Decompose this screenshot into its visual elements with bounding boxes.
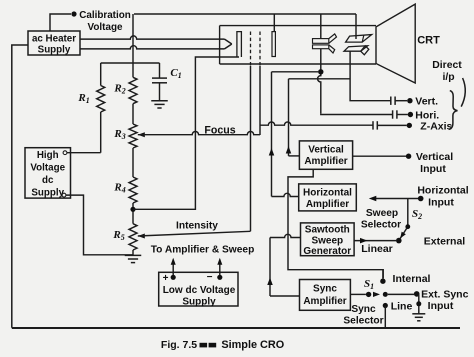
svg-text:R2: R2	[113, 83, 125, 96]
svg-text:Supply: Supply	[182, 297, 216, 308]
svg-text:Selector: Selector	[361, 220, 401, 231]
svg-text:CRT: CRT	[417, 35, 440, 47]
svg-text:Horizontal: Horizontal	[417, 185, 468, 197]
svg-text:External: External	[424, 236, 466, 248]
svg-text:Selector: Selector	[343, 316, 383, 327]
svg-text:Ext. Sync: Ext. Sync	[421, 289, 468, 301]
svg-text:Low dc Voltage: Low dc Voltage	[163, 285, 236, 296]
svg-text:Sawtooth: Sawtooth	[305, 225, 350, 236]
svg-text:Voltage: Voltage	[88, 22, 123, 33]
svg-text:Z-Axis: Z-Axis	[420, 121, 452, 133]
svg-text:Supply: Supply	[38, 45, 71, 56]
svg-text:R5: R5	[112, 229, 124, 242]
svg-text:Hori.: Hori.	[415, 109, 439, 121]
svg-text:Fig. 7.5: Fig. 7.5	[161, 339, 197, 351]
svg-text:Calibration: Calibration	[79, 10, 131, 21]
svg-text:i/p: i/p	[442, 72, 454, 83]
svg-text:Direct: Direct	[432, 60, 462, 71]
svg-text:High: High	[37, 150, 59, 161]
svg-text:Input: Input	[428, 300, 454, 312]
svg-text:Vertical: Vertical	[416, 151, 453, 163]
svg-text:R3: R3	[113, 128, 125, 141]
svg-text:C1: C1	[170, 67, 181, 80]
svg-text:+: +	[163, 273, 169, 284]
svg-text:Sync: Sync	[313, 284, 337, 295]
svg-text:Internal: Internal	[393, 273, 431, 285]
svg-text:Vertical: Vertical	[308, 145, 344, 156]
svg-text:Amplifier: Amplifier	[306, 199, 349, 210]
svg-text:Horizontal: Horizontal	[303, 188, 352, 199]
svg-text:Input: Input	[420, 163, 446, 175]
svg-text:dc: dc	[42, 175, 54, 186]
svg-text:Sweep: Sweep	[311, 236, 343, 247]
svg-text:Supply: Supply	[31, 188, 64, 199]
svg-text:Voltage: Voltage	[30, 163, 65, 174]
svg-text:S1: S1	[364, 278, 374, 291]
svg-text:Line: Line	[391, 300, 413, 312]
svg-text:Generator: Generator	[303, 246, 351, 257]
svg-text:R4: R4	[113, 182, 125, 195]
svg-text:Amplifier: Amplifier	[303, 296, 346, 307]
svg-text:Focus: Focus	[204, 125, 235, 137]
svg-text:Amplifier: Amplifier	[304, 156, 347, 167]
svg-text:S2: S2	[412, 208, 422, 221]
svg-text:To Amplifier & Sweep: To Amplifier & Sweep	[151, 245, 255, 256]
svg-text:Simple CRO: Simple CRO	[221, 339, 284, 351]
svg-text:Sync: Sync	[351, 304, 376, 315]
svg-text:R1: R1	[77, 92, 89, 105]
svg-text:Linear: Linear	[361, 243, 393, 255]
svg-text:ac Heater: ac Heater	[32, 34, 76, 45]
svg-text:Vert.: Vert.	[415, 96, 438, 108]
svg-text:−: −	[207, 272, 213, 283]
svg-text:Intensity: Intensity	[176, 221, 218, 232]
svg-text:Sweep: Sweep	[366, 208, 398, 219]
svg-text:Input: Input	[428, 197, 454, 209]
